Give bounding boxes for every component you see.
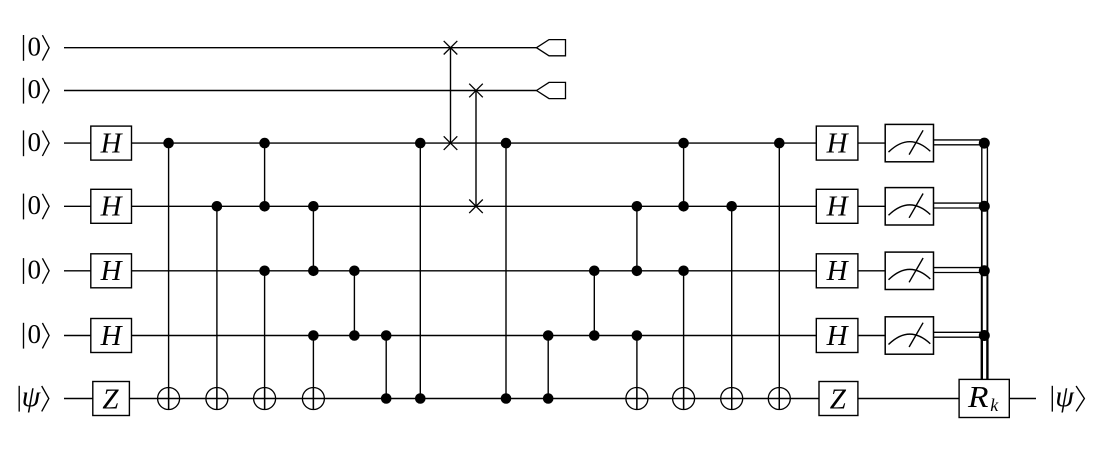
svg-text:ψ: ψ bbox=[22, 380, 42, 413]
svg-text:H: H bbox=[826, 255, 850, 287]
svg-text:k: k bbox=[990, 395, 999, 415]
svg-text:0: 0 bbox=[27, 74, 41, 104]
svg-text:H: H bbox=[100, 255, 124, 287]
svg-text:0: 0 bbox=[27, 255, 41, 285]
svg-text:Z: Z bbox=[102, 383, 119, 415]
svg-text:H: H bbox=[100, 320, 124, 352]
svg-text:ψ: ψ bbox=[1055, 380, 1075, 413]
svg-text:H: H bbox=[826, 191, 850, 223]
svg-text:Z: Z bbox=[830, 383, 847, 415]
svg-text:R: R bbox=[967, 379, 989, 414]
svg-text:0: 0 bbox=[27, 319, 41, 349]
svg-text:0: 0 bbox=[27, 31, 41, 61]
svg-text:H: H bbox=[826, 128, 850, 160]
svg-text:0: 0 bbox=[27, 190, 41, 220]
svg-text:H: H bbox=[100, 191, 124, 223]
svg-text:H: H bbox=[100, 128, 124, 160]
svg-text:0: 0 bbox=[27, 127, 41, 157]
svg-text:H: H bbox=[826, 320, 850, 352]
